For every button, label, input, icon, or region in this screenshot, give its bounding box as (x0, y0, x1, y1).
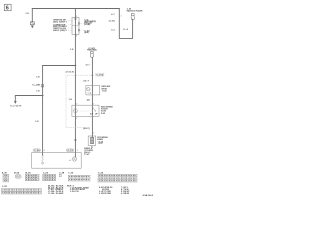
svg-text:D-4: D-4 (123, 28, 128, 31)
legend item B-18 grid (25, 172, 39, 181)
wire: antenna wire (91, 58, 93, 138)
legend item C-34 long grid (98, 171, 137, 182)
legend text column 3 (99, 186, 112, 195)
inline marker on trunk (75, 139, 77, 141)
svg-text:8: TS-W: 8: TS-W (121, 189, 129, 191)
motor antenna labels (97, 136, 108, 145)
box A right labels (102, 85, 112, 92)
wire: radio feed branch (119, 9, 132, 39)
svg-text:E-07: E-07 (99, 143, 103, 145)
legend text column 2 (67, 185, 90, 193)
svg-text:(IG1) JOINT 1: (IG1) JOINT 1 (53, 21, 67, 23)
legend item C-22 grid (43, 172, 56, 181)
box B right labels (101, 106, 113, 115)
svg-text:(4?-B-R): (4?-B-R) (66, 71, 75, 74)
svg-text:C-102: C-102 (96, 74, 103, 76)
junction left wire / arrow branch (42, 95, 44, 97)
svg-text:W-R: 5: W-R: 5 (67, 185, 74, 187)
svg-text:C-28: C-28 (59, 172, 64, 174)
dashed grouping outline (66, 75, 92, 128)
page marker box 6 (4, 4, 11, 11)
svg-text:5: UP TO 1997: 5: UP TO 1997 (99, 191, 111, 193)
svg-text:CONNECTOR: CONNECTOR (53, 24, 66, 26)
legend item C-35 long grid row2 (2, 186, 42, 194)
antenna amplifier box A (86, 86, 100, 95)
svg-text:9: FW-UP: 9: FW-UP (121, 191, 129, 193)
antenna motor box B (72, 105, 99, 116)
svg-text:UP: UP (95, 114, 98, 116)
svg-text:SPYDER: SPYDER (102, 189, 110, 191)
radio box right labels (84, 147, 93, 156)
inline connector marker on left wire (32, 85, 43, 87)
junction main trunk / left branch (75, 65, 77, 67)
svg-text:C-35: C-35 (2, 186, 7, 188)
off-page arrow (14, 101, 17, 104)
radio C-05 label (127, 9, 144, 13)
antenna feeder connector symbol (90, 51, 93, 57)
svg-text:(CD): (CD) (109, 20, 116, 22)
relay left label block (53, 20, 72, 32)
wire: left wire down (42, 66, 44, 156)
legend item B-05 oval connector (14, 172, 21, 178)
svg-text:B-05: B-05 (14, 172, 19, 174)
svg-text:SWITCH (10): SWITCH (10) (53, 28, 66, 30)
svg-text:C-30: C-30 (68, 172, 73, 174)
wire: relay feed (74, 9, 76, 18)
antenna feeder label (87, 48, 97, 52)
legend text column 1 (48, 184, 65, 195)
svg-text:E-05: E-05 (101, 113, 105, 115)
svg-text:1: 1 (121, 16, 122, 18)
svg-text:3: W-O CD: 3: W-O CD (70, 191, 80, 193)
svg-text:6: FROM 1998: 6: FROM 1998 (99, 193, 111, 195)
svg-text:C-05: C-05 (88, 48, 95, 50)
svg-text:(ILL): (ILL) (84, 152, 91, 154)
svg-text:C-28: C-28 (32, 85, 40, 87)
svg-text:(29-Y): (29-Y) (83, 128, 90, 130)
relay right label block (84, 19, 96, 34)
wire: left branch horizontal (43, 65, 76, 67)
wire: fusible link drop (31, 9, 33, 22)
connector oval left wire (33, 149, 45, 152)
svg-text:7: SD-Y: 7: SD-Y (121, 187, 128, 189)
connector oval trunk (66, 149, 78, 152)
wire: arrow branch (15, 96, 42, 102)
wire: main trunk (74, 34, 76, 156)
svg-text:C-22: C-22 (43, 172, 48, 174)
legend item A-30 (2, 171, 9, 182)
svg-text:D-4: D-4 (111, 28, 114, 31)
fusible link symbol (30, 22, 34, 29)
motor antenna unit (88, 136, 95, 148)
legend item C-30 grid (68, 172, 90, 181)
relay / fuse block U1 (72, 18, 84, 35)
svg-text:(2-B): (2-B) (84, 24, 91, 26)
svg-text:6: 6 (6, 6, 9, 12)
legend text column 4 (121, 187, 130, 195)
svg-text:B-18: B-77X: B-18: B-77X (48, 187, 65, 189)
legend item C-28 single (59, 172, 64, 176)
svg-text:C-31: C-31 (67, 150, 73, 152)
svg-text:IGNITION SW: IGNITION SW (53, 20, 66, 22)
radio connector symbol (131, 14, 134, 20)
svg-text:C-28: D-21X: C-28: D-21X (48, 191, 65, 193)
svg-text:E-06: E-06 (99, 141, 104, 143)
svg-text:5-2 W-R: 5-2 W-R (10, 105, 23, 107)
wire: top power rail (32, 8, 119, 10)
svg-text:C-30: C-30 (34, 150, 40, 152)
svg-text:C-05: C-05 (127, 9, 131, 11)
radio main unit box (32, 153, 81, 169)
svg-text:B-18: B-18 (26, 172, 31, 174)
inline connector on antenna wire (91, 73, 103, 76)
svg-text:0: RR-W: 0: RR-W (121, 193, 130, 195)
